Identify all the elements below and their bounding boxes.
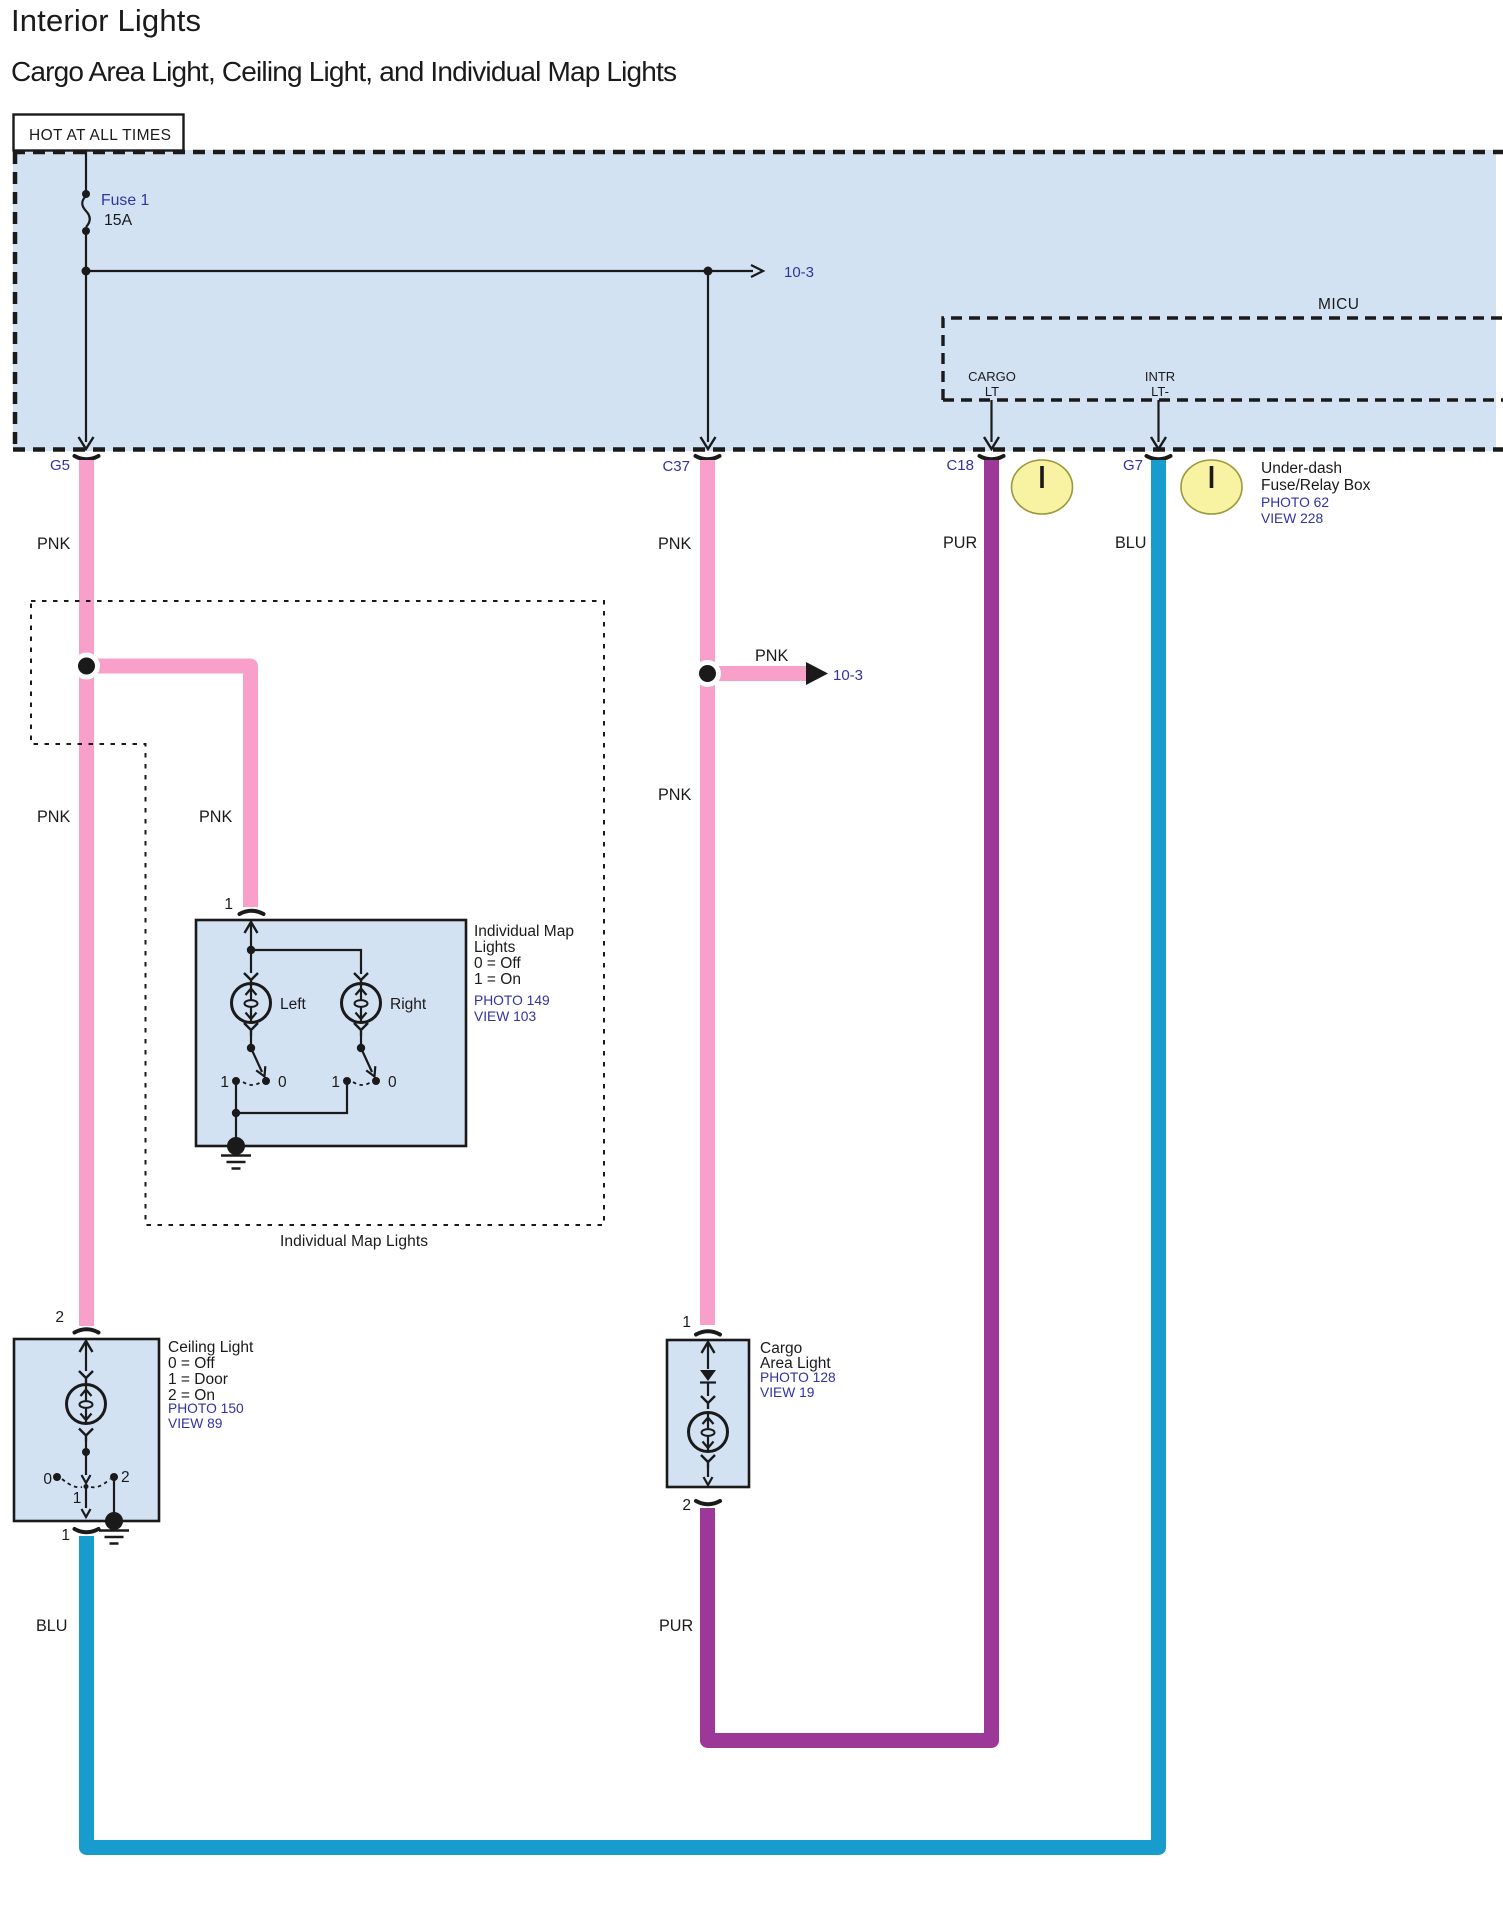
svg-text:VIEW 89: VIEW 89 [168,1416,223,1431]
svg-text:1: 1 [61,1527,70,1544]
svg-text:MICU: MICU [1318,296,1359,313]
svg-text:1 = Door: 1 = Door [168,1371,228,1388]
svg-text:PHOTO 149: PHOTO 149 [474,993,550,1008]
svg-text:0: 0 [388,1074,397,1091]
svg-text:1: 1 [220,1074,229,1091]
svg-text:Under-dash: Under-dash [1261,460,1342,477]
svg-text:2: 2 [682,1497,691,1514]
svg-text:PUR: PUR [943,534,977,552]
svg-text:BLU: BLU [36,1617,68,1635]
svg-text:PNK: PNK [37,808,70,826]
svg-text:1: 1 [224,896,233,913]
svg-text:0: 0 [43,1471,52,1488]
svg-text:10-3: 10-3 [784,264,814,281]
svg-text:0 = Off: 0 = Off [168,1355,215,1372]
svg-text:Lights: Lights [474,939,516,956]
svg-text:INTR: INTR [1145,369,1175,384]
svg-text:VIEW 103: VIEW 103 [474,1009,536,1024]
svg-text:PUR: PUR [659,1617,693,1635]
svg-text:Interior Lights: Interior Lights [11,3,201,38]
svg-text:G7: G7 [1123,457,1143,474]
svg-text:PHOTO 62: PHOTO 62 [1261,495,1329,510]
svg-text:Left: Left [280,996,307,1013]
svg-text:0: 0 [278,1074,287,1091]
svg-text:PNK: PNK [199,808,232,826]
svg-text:1: 1 [73,1490,82,1507]
svg-text:PHOTO 150: PHOTO 150 [168,1401,244,1416]
svg-text:Individual Map Lights: Individual Map Lights [280,1233,428,1250]
svg-text:1 = On: 1 = On [474,971,521,988]
svg-text:PHOTO 128: PHOTO 128 [760,1370,836,1385]
svg-text:Fuse/Relay Box: Fuse/Relay Box [1261,477,1371,494]
svg-text:PNK: PNK [658,786,691,804]
svg-text:LT-: LT- [1151,384,1169,399]
svg-text:Individual Map: Individual Map [474,923,574,940]
svg-text:PNK: PNK [658,535,691,553]
svg-text:VIEW 19: VIEW 19 [760,1385,815,1400]
svg-text:1: 1 [682,1314,691,1331]
svg-text:PNK: PNK [755,647,788,665]
svg-text:PNK: PNK [37,535,70,553]
svg-text:LT: LT [985,384,999,399]
svg-text:C18: C18 [946,457,974,474]
svg-text:2: 2 [121,1469,130,1486]
svg-text:CARGO: CARGO [968,369,1016,384]
svg-text:Ceiling Light: Ceiling Light [168,1339,254,1356]
svg-text:Right: Right [390,996,427,1013]
svg-text:VIEW 228: VIEW 228 [1261,511,1323,526]
svg-text:C37: C37 [662,458,690,475]
svg-text:HOT AT ALL TIMES: HOT AT ALL TIMES [29,127,171,144]
svg-text:1: 1 [331,1074,340,1091]
svg-text:2: 2 [55,1309,64,1326]
svg-text:10-3: 10-3 [833,667,863,684]
svg-text:Cargo Area Light, Ceiling Ligh: Cargo Area Light, Ceiling Light, and Ind… [11,56,677,87]
svg-text:Fuse 1: Fuse 1 [101,192,150,209]
svg-text:BLU: BLU [1115,534,1147,552]
svg-text:G5: G5 [50,457,70,474]
svg-text:15A: 15A [104,212,133,229]
svg-text:0 = Off: 0 = Off [474,955,521,972]
